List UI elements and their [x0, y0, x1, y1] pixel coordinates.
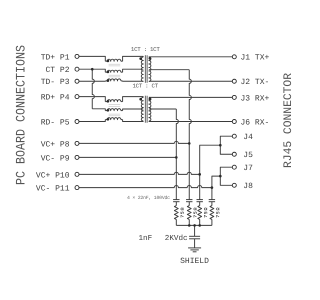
svg-text:RJ45 CONNECTOR: RJ45 CONNECTOR	[282, 73, 295, 168]
svg-text:TD- P3: TD- P3	[41, 78, 70, 87]
svg-text:VC+ P10: VC+ P10	[36, 171, 70, 180]
svg-text:RD- P5: RD- P5	[41, 118, 70, 127]
svg-text:1CT : CT: 1CT : CT	[132, 83, 158, 90]
svg-text:VC+ P8: VC+ P8	[41, 140, 70, 149]
svg-text:2KVdc: 2KVdc	[165, 234, 188, 243]
svg-text:1nF: 1nF	[139, 235, 153, 243]
svg-text:J1 TX+: J1 TX+	[241, 54, 270, 63]
svg-text:J7: J7	[243, 164, 253, 173]
svg-text:J6 RX-: J6 RX-	[241, 118, 270, 127]
svg-text:TD+ P1: TD+ P1	[41, 53, 70, 62]
svg-text:CT P2: CT P2	[45, 66, 69, 75]
svg-text:J4: J4	[243, 133, 253, 142]
svg-text:J8: J8	[243, 182, 253, 191]
svg-text:VC- P11: VC- P11	[36, 185, 70, 194]
svg-text:PC BOARD CONNECTIONS: PC BOARD CONNECTIONS	[14, 45, 29, 185]
svg-text:RD+ P4: RD+ P4	[41, 94, 70, 103]
svg-text:J5: J5	[243, 151, 253, 160]
svg-text:1CT : 1CT: 1CT : 1CT	[131, 46, 160, 53]
svg-text:J3 RX+: J3 RX+	[241, 94, 270, 103]
svg-text:4 × 22nF, 100Vdc: 4 × 22nF, 100Vdc	[127, 195, 170, 201]
svg-text:J2 TX-: J2 TX-	[241, 78, 270, 87]
svg-text:VC- P9: VC- P9	[41, 154, 70, 163]
svg-text:SHIELD: SHIELD	[180, 257, 209, 266]
